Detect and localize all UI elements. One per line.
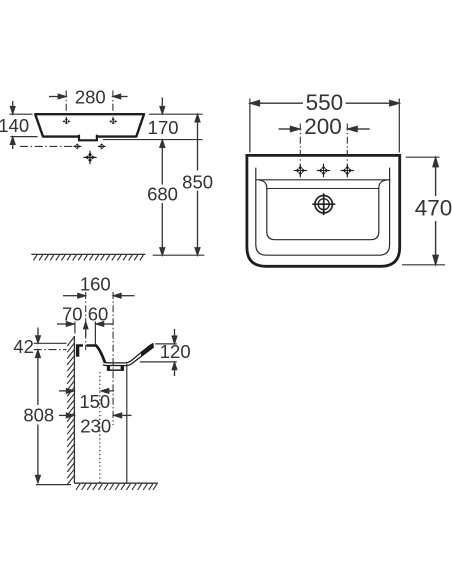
- faucet hole marker left (view1): [63, 118, 71, 125]
- dim 550 line with arrows: [250, 101, 398, 106]
- dim 140 up arrow: [10, 137, 15, 149]
- dim 120 bottom extension line: [140, 361, 177, 363]
- faucet hole marker right (plan): [341, 164, 354, 178]
- svg-text:160: 160: [80, 273, 111, 294]
- dimension baseline at floor (view1): [153, 254, 205, 256]
- dim 170 down arrow: [160, 98, 165, 114]
- svg-text:280: 280: [75, 87, 106, 108]
- fixing hole marker left (view1): [73, 143, 81, 149]
- bowl inner surface line: [104, 343, 153, 363]
- svg-text:42: 42: [13, 336, 34, 357]
- ground hatching (view1): [33, 255, 143, 260]
- dim 120 down arrow: [172, 329, 177, 343]
- dim 850 line with arrows: [195, 115, 200, 255]
- pedestal front line (view3): [126, 364, 128, 483]
- dim 150 line and arrows: [59, 389, 114, 394]
- dim 42 axis dash-dot line: [34, 349, 67, 351]
- dim 42 down arrow: [36, 328, 41, 343]
- faucet axis dash-dot left (view1): [65, 91, 67, 122]
- faucet axis dash-dot right (view1): [112, 91, 114, 122]
- svg-text:680: 680: [147, 184, 178, 205]
- wall hatching (view3): [67, 337, 74, 485]
- dim 200 arrows: [279, 126, 370, 131]
- drain axis dash-dot vertical (view3): [112, 292, 114, 425]
- plan deck line: [256, 179, 390, 181]
- floor hatching (view3): [76, 484, 157, 490]
- svg-text:230: 230: [80, 415, 111, 436]
- dim 70/60 row: wall tick: [74, 322, 76, 334]
- ground hatched line (view1): [31, 253, 145, 255]
- dim 200 dash-dot extension left: [299, 124, 301, 164]
- dim 42 top extension line: [34, 342, 67, 344]
- fixing holes dash-dot axis (view1): [20, 145, 74, 147]
- dim 70/60 row: left arrow: [57, 322, 74, 327]
- dim 70/60 row: up arrow at tap axis: [84, 322, 88, 337]
- dim 200 dash-dot extension right: [346, 124, 348, 164]
- svg-text:70: 70: [62, 303, 83, 324]
- dim 140 bottom extension line: [10, 136, 37, 138]
- dim 140 down arrow: [10, 101, 15, 114]
- plan bowl lip line: [267, 188, 379, 190]
- svg-text:150: 150: [79, 391, 110, 412]
- svg-text:470: 470: [415, 196, 452, 221]
- dim 70/60 row: right arrow: [96, 322, 112, 327]
- faucet hole marker right (view1): [109, 118, 117, 125]
- faucet hole marker left (plan): [294, 164, 307, 178]
- basin front outline: [35, 114, 144, 136]
- bowl left slope band: [95, 345, 105, 363]
- plan bowl outline: [259, 180, 387, 240]
- faucet hole marker centre (plan): [317, 164, 330, 178]
- drain symbol (plan): [312, 193, 335, 215]
- svg-text:120: 120: [160, 341, 191, 362]
- dim 680 line with arrows: [160, 140, 165, 255]
- dim 470 line with arrows: [433, 158, 438, 265]
- backsplash bar: [76, 344, 79, 356]
- tap axis dash-dot vertical (view3): [85, 292, 87, 350]
- tap hole gap: [83, 344, 87, 348]
- drain offset dotted line (view3): [99, 372, 101, 483]
- plan outer outline: [247, 155, 400, 266]
- dim 120 top extension line: [155, 343, 177, 345]
- svg-text:850: 850: [182, 171, 213, 192]
- svg-text:140: 140: [0, 115, 29, 136]
- drain boss: [107, 365, 124, 371]
- drain outlet gap: [110, 366, 121, 369]
- svg-text:200: 200: [304, 114, 342, 139]
- dim 170 top extension line: [149, 113, 203, 115]
- drain mark (view1): [83, 151, 96, 164]
- svg-text:550: 550: [306, 90, 344, 115]
- dim 70/60 row: tick at 60: [94, 322, 96, 345]
- fixing hole marker right (view1): [98, 143, 106, 149]
- dim 470 bottom extension line: [402, 264, 445, 266]
- basin section profile (view3): [76, 343, 154, 371]
- dim 120 up arrow: [172, 362, 177, 376]
- svg-text:808: 808: [23, 405, 54, 426]
- dim 550 extension lines: [250, 99, 399, 153]
- dim 170 bottom extension line: [103, 139, 203, 141]
- svg-text:60: 60: [88, 303, 109, 324]
- wall face line (view3): [73, 336, 75, 483]
- dim 808 line with arrows: [36, 350, 41, 482]
- drain notch under basin: [79, 134, 97, 140]
- dim 470 top extension line: [406, 156, 440, 158]
- dim 160 line and arrows: [63, 293, 135, 298]
- dim 808 bottom extension line: [36, 484, 71, 486]
- rim beak fill: [141, 343, 154, 356]
- bowl outer surface line: [103, 347, 154, 366]
- svg-text:170: 170: [148, 117, 179, 138]
- dim 280 line and arrows: [49, 94, 128, 99]
- dim 140 top extension line: [9, 113, 32, 115]
- dim 230 line and arrows: [59, 413, 132, 418]
- deck band: [79, 344, 96, 347]
- plan inner wall line: [256, 168, 390, 256]
- floor line (view3): [74, 482, 158, 484]
